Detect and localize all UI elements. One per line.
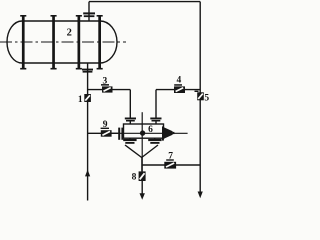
wire valve 4 run to right riser — [156, 89, 200, 91]
vessel 2 right elliptical head — [100, 21, 117, 63]
wire top header from tank top nozzle to right riser — [89, 1, 200, 3]
mixer inlet flange pair — [118, 128, 123, 140]
svg-text:7: 7 — [168, 151, 173, 161]
valve V4 — [174, 84, 185, 93]
valve V1 — [84, 94, 91, 102]
flange pair on tank bottom nozzle — [82, 69, 93, 73]
valve V7 — [164, 159, 176, 168]
wire funnel stem down — [141, 158, 143, 172]
mixer left bottom nozzle stub — [129, 138, 131, 141]
mixer left bottom flange — [123, 139, 136, 144]
vessel stiffener ring 4 — [97, 15, 103, 70]
wire branch tee to valve 3 — [88, 89, 131, 91]
wire tank bottom drain line (left vertical) — [87, 63, 89, 201]
mixer right bottom flange — [148, 139, 161, 144]
valve V3 — [101, 84, 113, 93]
svg-text:8: 8 — [132, 173, 137, 183]
wire corner down to mixer right top nozzle — [155, 90, 157, 118]
mixer M6 body — [124, 124, 164, 138]
vessel 2 centerline — [0, 41, 126, 43]
vessel stiffener ring 1 — [20, 15, 26, 70]
svg-text:6: 6 — [148, 125, 153, 135]
valve V8 — [139, 171, 146, 181]
mixer discharge eductor cone — [162, 126, 174, 140]
mixer right top nozzle flange — [150, 118, 161, 122]
wire branch to valve 7 — [142, 164, 200, 166]
mixer internal centerline / discharge line — [112, 132, 188, 134]
wire branch to valve 9 / mixer inlet — [88, 132, 119, 134]
svg-text:1: 1 — [78, 95, 83, 105]
mixer right bottom nozzle stub — [154, 138, 156, 141]
arrow down at bottom of valve 8 outlet — [140, 193, 145, 200]
svg-text:5: 5 — [204, 94, 209, 104]
svg-text:3: 3 — [103, 76, 108, 86]
vessel 2 left elliptical head — [7, 21, 22, 63]
mixer right top nozzle stub — [155, 122, 157, 125]
valve V9 — [101, 128, 112, 137]
funnel under mixer — [125, 145, 158, 158]
valve V5 — [195, 91, 204, 101]
wire right main riser — [199, 2, 201, 193]
wire tank top nozzle riser — [88, 2, 90, 22]
mixer central vertical stub — [141, 112, 143, 171]
vessel stiffener ring 3 — [76, 15, 82, 70]
svg-text:4: 4 — [177, 76, 182, 86]
wire corner down to mixer left top nozzle — [129, 90, 131, 118]
wire valve 8 outlet down — [141, 181, 143, 195]
junction dot at mixer center — [140, 130, 145, 135]
svg-text:9: 9 — [103, 120, 108, 130]
svg-text:2: 2 — [67, 27, 72, 38]
vessel stiffener ring 2 — [51, 15, 57, 70]
arrow up on drain line — [85, 170, 90, 177]
mixer left top nozzle stub — [129, 122, 131, 125]
flange pair on tank top nozzle — [83, 12, 95, 17]
mixer left top nozzle flange — [125, 118, 136, 122]
arrow down at bottom of right riser — [198, 192, 203, 199]
vessel 2 shell — [22, 21, 100, 63]
